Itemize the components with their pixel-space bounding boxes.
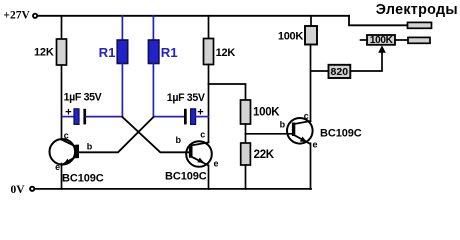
wire pot left stub: [361, 39, 368, 41]
terminal +27V: [33, 14, 37, 18]
svg-text:1µF 35V: 1µF 35V: [167, 92, 205, 104]
wire 820 to wiper: [350, 52, 382, 72]
wire 12K-2 top lead: [208, 16, 210, 39]
resistor 820: [329, 65, 351, 78]
wire 100K-top lead: [310, 16, 312, 26]
svg-text:e: e: [213, 158, 218, 168]
svg-text:c: c: [304, 111, 309, 121]
wire Q1 emitter to 0V: [61, 164, 63, 189]
svg-text:22K: 22K: [254, 149, 275, 161]
wire 12K-1 top lead: [61, 16, 63, 39]
transistor Q2 BC109C (middle): [165, 129, 219, 182]
resistor R1 (left, blue): [117, 40, 128, 64]
wire cross-couple A (C1/R1 junction to Q2 base): [122, 117, 189, 152]
wire Q3 base: [246, 133, 292, 135]
wire R1-1 bottom lead (blue): [121, 64, 123, 117]
svg-text:100K: 100K: [278, 31, 303, 43]
svg-text:b: b: [280, 119, 286, 129]
resistor 12K (right): [204, 39, 214, 65]
svg-text:100K: 100K: [253, 107, 280, 119]
svg-text:BC109C: BC109C: [165, 171, 207, 183]
svg-text:820: 820: [331, 66, 349, 78]
transistor Q1 BC109C (left, mirrored): [50, 131, 104, 185]
resistor 12K (left): [57, 39, 67, 65]
svg-text:b: b: [87, 142, 93, 152]
svg-text:R1: R1: [99, 45, 116, 60]
resistor R1 (right, blue): [148, 40, 159, 64]
svg-text:R1: R1: [161, 45, 178, 60]
wire Q3 emitter to 0V: [310, 143, 312, 189]
wire 0V rail: [36, 188, 311, 190]
wire rail step to electrode: [349, 16, 408, 25]
terminal 0V: [30, 187, 34, 191]
svg-text:c: c: [64, 131, 69, 141]
svg-text:BC109C: BC109C: [62, 173, 104, 185]
wire top rail: [39, 15, 349, 17]
svg-text:e: e: [55, 162, 60, 172]
svg-text:Электроды: Электроды: [376, 2, 458, 18]
wire Q1 collector column: [61, 65, 63, 140]
electrode bar (bottom): [408, 37, 430, 43]
wire Q2 collector to divider: [209, 84, 246, 100]
svg-text:1µF 35V: 1µF 35V: [64, 92, 102, 104]
svg-text:b: b: [176, 135, 182, 145]
wire R1-1 top lead (blue): [121, 16, 123, 40]
svg-text:12K: 12K: [34, 47, 54, 59]
resistor 100K (top): [305, 26, 317, 45]
resistor 22K: [241, 143, 251, 165]
svg-text:+27V: +27V: [3, 10, 30, 22]
wiper arrowhead: [378, 45, 386, 53]
wire cross-couple B (C2/R1 junction to Q1 base): [79, 117, 153, 152]
electrode bar (top): [408, 22, 432, 28]
svg-text:0V: 0V: [11, 184, 26, 196]
svg-text:e: e: [312, 140, 317, 150]
resistor 100K (divider): [241, 100, 251, 124]
potentiometer 100K: [367, 35, 395, 45]
svg-text:12K: 12K: [216, 47, 236, 59]
svg-text:100K: 100K: [370, 35, 394, 46]
svg-text:BC109C: BC109C: [320, 128, 362, 140]
wire R1-2 top lead (blue): [152, 16, 154, 40]
wire Q2 collector column: [208, 65, 210, 143]
wire Q3 collector column: [310, 45, 312, 122]
wire divider middle: [245, 124, 247, 143]
wire pot to electrode: [395, 39, 408, 41]
wire 22K bottom lead: [245, 165, 247, 189]
wire Q2 emitter to 0V: [208, 165, 210, 189]
wire 820 left lead: [311, 70, 329, 72]
svg-text:c: c: [200, 129, 205, 139]
wire R1-2 bottom lead (blue): [152, 64, 154, 117]
transistor Q3 BC109C (right): [280, 111, 362, 149]
